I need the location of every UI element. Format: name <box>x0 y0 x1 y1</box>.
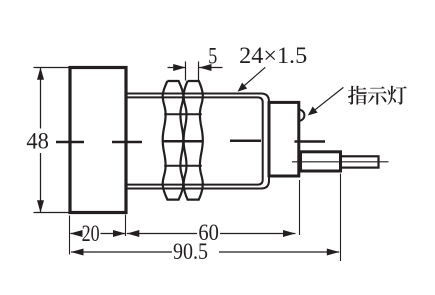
svg-text:20: 20 <box>82 221 100 246</box>
dim 60: left arrowhead <box>127 230 140 237</box>
centerline tick at flange left edge <box>56 141 84 144</box>
svg-text:48: 48 <box>26 129 49 154</box>
centerline tick at rear cap edge <box>295 140 326 143</box>
dim 60: dimension line <box>127 233 197 235</box>
bottom extension line at x=299.4 (cap right) <box>299 180 301 235</box>
cable gland rectangle <box>301 152 341 171</box>
label indicator light: character deng <box>387 86 406 105</box>
nut mid line on centerline <box>163 140 203 143</box>
dim 5: left extension line <box>185 62 187 81</box>
svg-text:90.5: 90.5 <box>173 239 208 264</box>
dim 20: left arrowhead <box>70 230 83 237</box>
dim 5: right arrow line <box>199 67 223 69</box>
indicator LED bump on rear cap <box>299 110 305 121</box>
label indicator light: character zhi <box>348 86 367 105</box>
dim 20: dimension line <box>71 233 82 235</box>
dim 5: right arrowhead pointing left <box>199 64 212 71</box>
dim 48: bottom extension line <box>34 212 69 214</box>
dim 90.5: right arrowhead <box>327 249 340 256</box>
dim 90.5: dimension line <box>71 251 172 253</box>
bottom extension line at x=340.8 (gland right) <box>340 174 342 262</box>
centerline tick at flange right edge <box>112 141 142 144</box>
threaded barrel outer outline with rounded right end <box>127 94 269 189</box>
threaded barrel inner (thread minor diameter) outline <box>127 97 263 184</box>
nut waist line upper <box>164 113 202 115</box>
flange rectangle (sensor mounting body, 48 square) <box>70 68 126 213</box>
cable axis centerline <box>292 161 389 163</box>
dim 60: right arrowhead <box>283 230 296 237</box>
dim 48: up arrowhead <box>37 67 44 80</box>
label 24x1.5: arrowhead <box>238 83 248 92</box>
dim 48: top extension line <box>34 67 69 69</box>
dim 5: left arrowhead pointing right <box>173 64 186 71</box>
centerline tick inside barrel right end <box>230 139 261 142</box>
cable rectangle <box>341 156 379 167</box>
nut waist line lower <box>164 165 202 167</box>
label indicator light: character shi <box>368 86 387 104</box>
hex nut 2 (right lock nut) <box>184 81 203 200</box>
dim 5: left arrow line <box>168 67 186 69</box>
label indicator light: arrowhead <box>308 107 318 116</box>
dim 48: vertical dimension line lower part <box>40 153 42 213</box>
dim 48: down arrowhead <box>37 200 44 213</box>
bottom extension line at x=70 (flange left) <box>69 216 71 255</box>
dim 90.5: left arrowhead <box>71 249 84 256</box>
dim 48: vertical dimension line upper part <box>40 68 42 129</box>
label 24x1.5: leader line <box>239 67 265 90</box>
hex nut 1 (left lock nut) <box>163 81 184 200</box>
dim 5: right extension line <box>198 62 200 81</box>
dim 20: right arrowhead <box>113 230 126 237</box>
bottom extension line at x=126 (flange right) <box>125 215 127 237</box>
svg-text:5: 5 <box>208 43 217 68</box>
svg-text:24×1.5: 24×1.5 <box>239 43 307 68</box>
label indicator light: leader line <box>309 87 343 114</box>
rear cap rectangle <box>269 102 299 176</box>
